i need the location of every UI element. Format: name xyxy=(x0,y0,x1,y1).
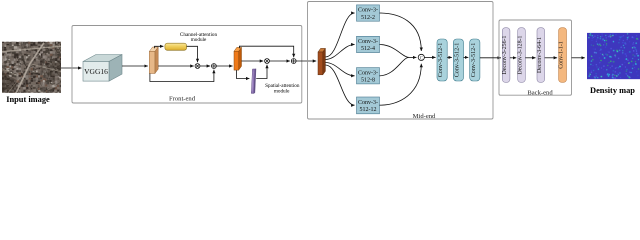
svg-text:Conv-3-: Conv-3- xyxy=(358,39,378,45)
svg-text:Density map: Density map xyxy=(590,86,635,95)
wire: F2 bottom to spatial-attention module xyxy=(237,70,250,78)
svg-text:Input image: Input image xyxy=(6,95,50,104)
svg-text:Conv-3-: Conv-3- xyxy=(358,70,378,76)
svg-text:512-4: 512-4 xyxy=(361,46,375,52)
svg-text:512-12: 512-12 xyxy=(360,107,377,113)
svg-text:512-8: 512-8 xyxy=(361,78,375,84)
conv capsule Conv-3-512-1 (2) xyxy=(453,39,463,81)
merge wire: Conv-3-512-4 to concat node xyxy=(380,45,410,58)
svg-text:module: module xyxy=(274,89,290,95)
input image (aerial photo) xyxy=(2,39,68,98)
svg-text:Conv-3-: Conv-3- xyxy=(358,8,378,14)
feature slab F3 xyxy=(318,48,325,74)
feature bar F2 xyxy=(234,47,242,70)
channel-attention module xyxy=(165,43,187,50)
spatial-attention module xyxy=(251,69,256,94)
wire: Deconv-3-128-1 to Deconv-3-64-1 xyxy=(525,57,535,59)
merge wire: Conv-3-512-12 to concat node xyxy=(380,64,422,105)
wire: capsule 1 to capsule 2 xyxy=(447,56,452,58)
front-end box xyxy=(72,26,302,104)
wire: VGG16 to feature bar F1 xyxy=(122,65,148,67)
conv capsule Conv-3-512-1 (3) xyxy=(470,39,480,81)
svg-text:Conv-1-1-1: Conv-1-1-1 xyxy=(559,41,565,69)
svg-text:module: module xyxy=(191,37,207,43)
wire: P1 to feature bar F2 xyxy=(216,65,232,67)
svg-text:VGG16: VGG16 xyxy=(84,67,108,76)
conv capsule Conv-1-1-1 xyxy=(559,28,567,83)
wire: Deconv-3-64-1 to Conv-1-1-1 xyxy=(545,57,558,59)
branch wire: F3 to Conv-3-512-12 xyxy=(325,65,354,105)
concat node C xyxy=(418,54,424,61)
branch wire: F3 to Conv-3-512-4 xyxy=(325,45,354,60)
conv box Conv-3-512-12 xyxy=(357,97,380,114)
svg-text:C: C xyxy=(420,56,423,61)
svg-text:Mid-end: Mid-end xyxy=(413,113,436,120)
wire: F2 to X2 xyxy=(242,60,264,62)
merge wire: Conv-3-512-2 to concat node xyxy=(380,13,422,51)
wire: concat node to Conv-3-512-1 capsule 1 xyxy=(424,56,435,58)
wire: mid-end to back-end (capsule 3 to Deconv-3-256-1) xyxy=(480,57,501,59)
feature bar F1 xyxy=(149,47,158,74)
add node P2 xyxy=(291,59,296,64)
deconv capsule Deconv-3-256-1 xyxy=(502,28,510,83)
wire: X2 to add node P2 xyxy=(269,60,290,62)
wire: Deconv-3-256-1 to Deconv-3-128-1 xyxy=(510,57,516,59)
wire: X1 to add node P1 xyxy=(200,65,210,67)
back-end box xyxy=(499,20,572,95)
multiply node X2 xyxy=(265,59,270,64)
svg-text:Back-end: Back-end xyxy=(527,89,553,96)
mid-end box xyxy=(308,2,494,120)
merge wire: joined middle branches into concat node xyxy=(409,56,416,58)
add node P1 xyxy=(212,64,217,69)
branch wire: F3 to Conv-3-512-2 xyxy=(325,13,354,57)
conv box Conv-3-512-4 xyxy=(357,36,380,52)
conv capsule Conv-3-512-1 (1) xyxy=(437,39,447,81)
deconv capsule Deconv-3-128-1 xyxy=(518,28,526,83)
svg-text:Conv-3-512-1: Conv-3-512-1 xyxy=(471,43,477,78)
svg-text:Conv-3-: Conv-3- xyxy=(358,100,378,106)
density map xyxy=(587,33,640,80)
wire: F1 to X1 xyxy=(158,65,194,67)
svg-text:Deconv-3-64-1: Deconv-3-64-1 xyxy=(537,37,543,73)
multiply node X1 xyxy=(195,64,200,69)
svg-text:Deconv-3-256-1: Deconv-3-256-1 xyxy=(502,35,508,74)
svg-text:512-2: 512-2 xyxy=(361,15,375,21)
svg-text:Conv-3-512-1: Conv-3-512-1 xyxy=(454,43,460,78)
wire: spatial-attention module to multiply node X2 xyxy=(256,65,267,79)
wire: capsule 2 to capsule 3 xyxy=(464,56,469,58)
branch wire: F3 to Conv-3-512-8 xyxy=(325,63,354,76)
VGG16 block xyxy=(83,55,122,82)
wire: skip from F1 bottom to P1 xyxy=(150,70,214,82)
conv box Conv-3-512-2 xyxy=(357,5,380,21)
merge wire: Conv-3-512-8 to concat node xyxy=(380,57,410,75)
svg-text:Deconv-3-128-1: Deconv-3-128-1 xyxy=(518,35,524,74)
wire: P2 to mid-end slab F3 xyxy=(296,60,316,62)
arrow: back-end to density map xyxy=(572,57,585,59)
wire: F1 top to channel-attention module xyxy=(155,46,164,48)
wire: channel-attention module to multiply node X1 xyxy=(187,46,198,62)
svg-text:Front-end: Front-end xyxy=(169,96,196,103)
wire: skip from F2 top to add node P2 xyxy=(239,46,293,57)
deconv capsule Deconv-3-64-1 xyxy=(537,28,545,83)
svg-text:Conv-3-512-1: Conv-3-512-1 xyxy=(438,43,444,78)
conv box Conv-3-512-8 xyxy=(357,68,380,84)
arrow: input image to VGG16 xyxy=(61,67,82,69)
